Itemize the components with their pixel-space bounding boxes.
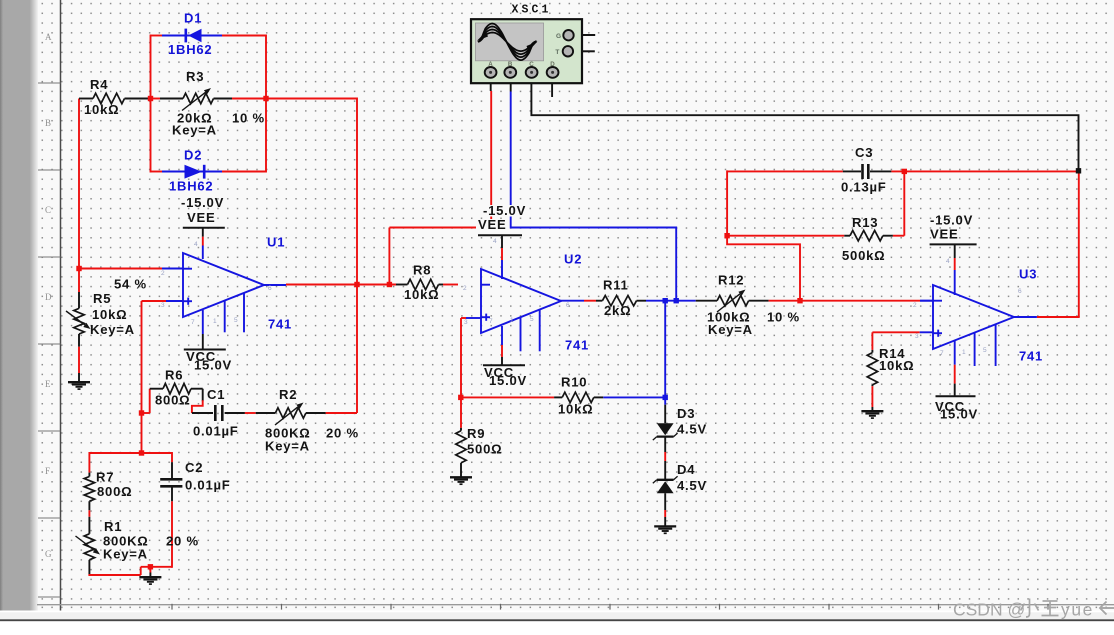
svg-text:C: C (529, 61, 534, 68)
svg-text:3: 3 (915, 333, 919, 340)
svg-text:R13: R13 (852, 215, 878, 230)
svg-text:U1: U1 (267, 235, 285, 250)
svg-text:R1: R1 (104, 519, 122, 534)
svg-text:R11: R11 (603, 278, 629, 293)
svg-text:800Ω: 800Ω (97, 484, 132, 499)
svg-text:A: A (45, 32, 52, 42)
svg-text:R12: R12 (718, 273, 744, 288)
svg-text:R9: R9 (467, 426, 485, 441)
svg-text:-15.0V: -15.0V (483, 203, 526, 218)
svg-text:D1: D1 (184, 11, 202, 26)
svg-text:R8: R8 (413, 263, 431, 278)
svg-text:10kΩ: 10kΩ (404, 287, 439, 302)
svg-text:Key=A: Key=A (172, 123, 217, 138)
svg-text:R5: R5 (93, 291, 111, 306)
svg-text:R4: R4 (90, 77, 108, 92)
svg-text:2: 2 (913, 302, 917, 309)
svg-text:CSDN @: CSDN @ (953, 600, 1025, 620)
svg-text:C: C (45, 205, 51, 215)
svg-text:15.0V: 15.0V (940, 407, 978, 422)
svg-text:4: 4 (194, 241, 198, 248)
svg-text:800Ω: 800Ω (155, 393, 190, 408)
svg-text:XSC1: XSC1 (512, 4, 552, 17)
svg-text:D2: D2 (184, 148, 202, 163)
svg-text:R10: R10 (561, 375, 587, 390)
svg-text:1: 1 (510, 317, 514, 324)
svg-text:C1: C1 (207, 387, 225, 402)
svg-text:4: 4 (493, 238, 497, 245)
svg-text:0.01µF: 0.01µF (193, 424, 239, 439)
svg-text:C3: C3 (855, 145, 873, 160)
svg-text:2: 2 (463, 285, 467, 292)
svg-text:0.01µF: 0.01µF (185, 478, 231, 493)
svg-text:0.13µF: 0.13µF (841, 180, 887, 195)
svg-text:T: T (555, 49, 559, 56)
svg-text:7: 7 (489, 318, 493, 325)
svg-text:500Ω: 500Ω (467, 442, 502, 457)
svg-text:U3: U3 (1019, 267, 1037, 282)
svg-text:7: 7 (191, 319, 195, 326)
svg-text:4: 4 (946, 258, 950, 265)
svg-text:G: G (45, 549, 52, 559)
svg-text:20 %: 20 % (326, 426, 359, 441)
svg-text:A: A (488, 61, 493, 68)
svg-text:Key=A: Key=A (265, 439, 310, 454)
svg-text:B: B (45, 118, 51, 128)
svg-text:R2: R2 (279, 387, 297, 402)
svg-text:741: 741 (268, 317, 292, 332)
svg-text:R6: R6 (165, 368, 183, 383)
svg-text:1BH62: 1BH62 (169, 179, 213, 194)
svg-text:F: F (45, 466, 50, 476)
svg-text:6: 6 (566, 302, 570, 309)
svg-text:3: 3 (161, 302, 165, 309)
svg-text:yue: yue (1061, 600, 1094, 620)
svg-text:3: 3 (464, 319, 468, 326)
svg-text:10kΩ: 10kΩ (558, 402, 593, 417)
svg-text:1: 1 (962, 349, 966, 356)
svg-text:10kΩ: 10kΩ (92, 307, 127, 322)
svg-text:10 %: 10 % (767, 310, 800, 325)
svg-text:7: 7 (940, 350, 944, 357)
svg-text:D: D (45, 292, 52, 302)
svg-text:10kΩ: 10kΩ (879, 358, 914, 373)
svg-text:U2: U2 (564, 252, 582, 267)
svg-text:5: 5 (983, 347, 987, 354)
svg-text:VEE: VEE (478, 217, 506, 232)
svg-text:-15.0V: -15.0V (930, 213, 973, 228)
svg-text:E: E (45, 379, 51, 389)
svg-text:20 %: 20 % (166, 534, 199, 549)
svg-text:54 %: 54 % (114, 276, 147, 291)
svg-text:1: 1 (213, 318, 217, 325)
svg-text:741: 741 (565, 338, 589, 353)
svg-text:B: B (508, 61, 513, 68)
svg-text:15.0V: 15.0V (194, 358, 232, 373)
svg-text:Key=A: Key=A (90, 322, 135, 337)
svg-text:D: D (550, 61, 555, 68)
svg-text:741: 741 (1019, 349, 1043, 364)
svg-text:D4: D4 (677, 462, 695, 477)
svg-text:VEE: VEE (187, 210, 215, 225)
svg-text:4.5V: 4.5V (677, 421, 707, 436)
svg-text:10kΩ: 10kΩ (84, 102, 119, 117)
svg-text:4.5V: 4.5V (677, 478, 707, 493)
svg-text:Key=A: Key=A (708, 322, 753, 337)
svg-text:500kΩ: 500kΩ (842, 248, 885, 263)
svg-text:15.0V: 15.0V (489, 373, 527, 388)
svg-text:2: 2 (161, 270, 165, 277)
svg-text:1BH62: 1BH62 (168, 42, 212, 57)
svg-text:D3: D3 (677, 406, 695, 421)
svg-text:C2: C2 (185, 460, 203, 475)
svg-text:R7: R7 (96, 470, 114, 485)
svg-text:2kΩ: 2kΩ (604, 303, 631, 318)
svg-text:5: 5 (530, 316, 534, 323)
svg-text:6: 6 (268, 285, 272, 292)
svg-text:VEE: VEE (930, 227, 958, 242)
svg-text:6: 6 (1018, 288, 1022, 295)
svg-text:G: G (556, 33, 561, 40)
svg-text:R3: R3 (186, 69, 204, 84)
svg-text:5: 5 (234, 317, 238, 324)
svg-text:Key=A: Key=A (103, 547, 148, 562)
svg-text:-15.0V: -15.0V (181, 195, 224, 210)
svg-text:10 %: 10 % (232, 111, 265, 126)
